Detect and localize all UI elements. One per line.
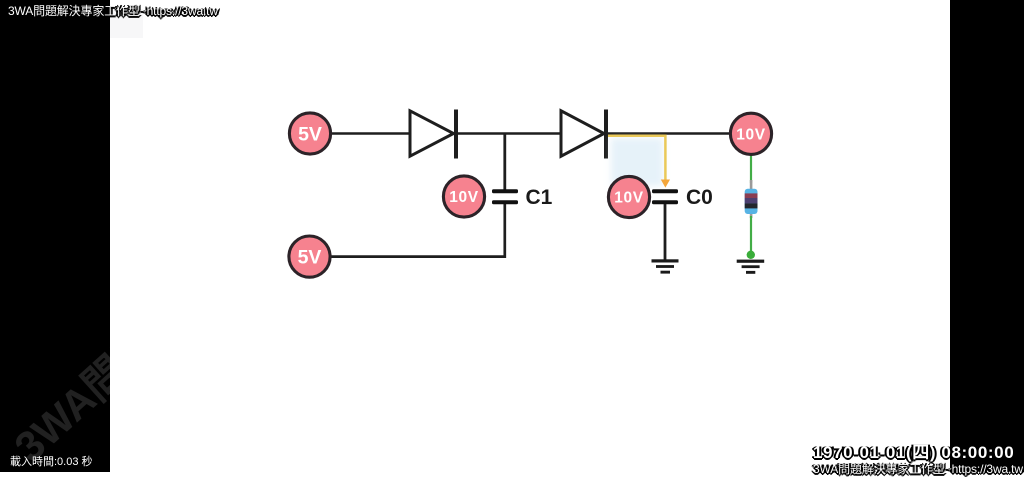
voltage badge 10V at capacitor C1 bbox=[443, 176, 484, 217]
timestamp caption bbox=[813, 438, 1014, 463]
wire from diode D1 cathode to diode D2 anode bbox=[457, 132, 562, 135]
green wire from resistor R1 to ground bbox=[750, 216, 752, 252]
wire node A: vertical drop from top rail to capacitor C1 bbox=[503, 134, 506, 190]
voltage badge 10V at output node bbox=[730, 113, 771, 154]
ground symbol under R1 bbox=[737, 260, 765, 274]
wire from diode D2 cathode to 10V output node bbox=[608, 132, 730, 135]
voltage badge 10V at capacitor C0 bbox=[608, 176, 649, 217]
svg-text:10V: 10V bbox=[614, 190, 643, 207]
svg-text:C0: C0 bbox=[686, 186, 713, 209]
diode D2 bbox=[561, 110, 608, 159]
right letterbox bar bbox=[950, 0, 1024, 472]
svg-text:5V: 5V bbox=[298, 246, 322, 268]
url watermark bottom-right bbox=[813, 460, 1023, 477]
wire from capacitor C0 to ground bbox=[664, 204, 667, 260]
load time caption bbox=[10, 453, 93, 469]
capacitor C1 bbox=[492, 189, 518, 204]
wire from capacitor C1 bottom plate down to bottom rail and to 5V bottom source bbox=[331, 204, 505, 257]
resistor R1 bbox=[745, 180, 758, 218]
node junction dot (green) bbox=[747, 251, 755, 259]
svg-text:C1: C1 bbox=[526, 186, 553, 209]
svg-text:10V: 10V bbox=[449, 189, 478, 206]
faint artifact patch top-left bbox=[110, 9, 143, 38]
current highlight region bbox=[611, 138, 663, 186]
current flow wire (yellow) from D2 to capacitor C0 bbox=[608, 136, 670, 188]
ground symbol under C0 bbox=[652, 259, 679, 273]
svg-text:5V: 5V bbox=[298, 123, 322, 145]
voltage source 5V top bbox=[289, 113, 330, 154]
left letterbox bar bbox=[0, 0, 110, 472]
capacitor C0 bbox=[652, 189, 678, 204]
green wire from 10V node to resistor R1 bbox=[750, 155, 752, 183]
title watermark text top-left bbox=[8, 2, 218, 19]
voltage source 5V bottom bbox=[289, 236, 330, 277]
diode D1 bbox=[410, 110, 458, 159]
svg-text:10V: 10V bbox=[736, 127, 765, 144]
wire from 5V top source to diode D1 anode bbox=[331, 132, 410, 135]
svg-text:3WA問題: 3WA問題 bbox=[6, 319, 168, 471]
